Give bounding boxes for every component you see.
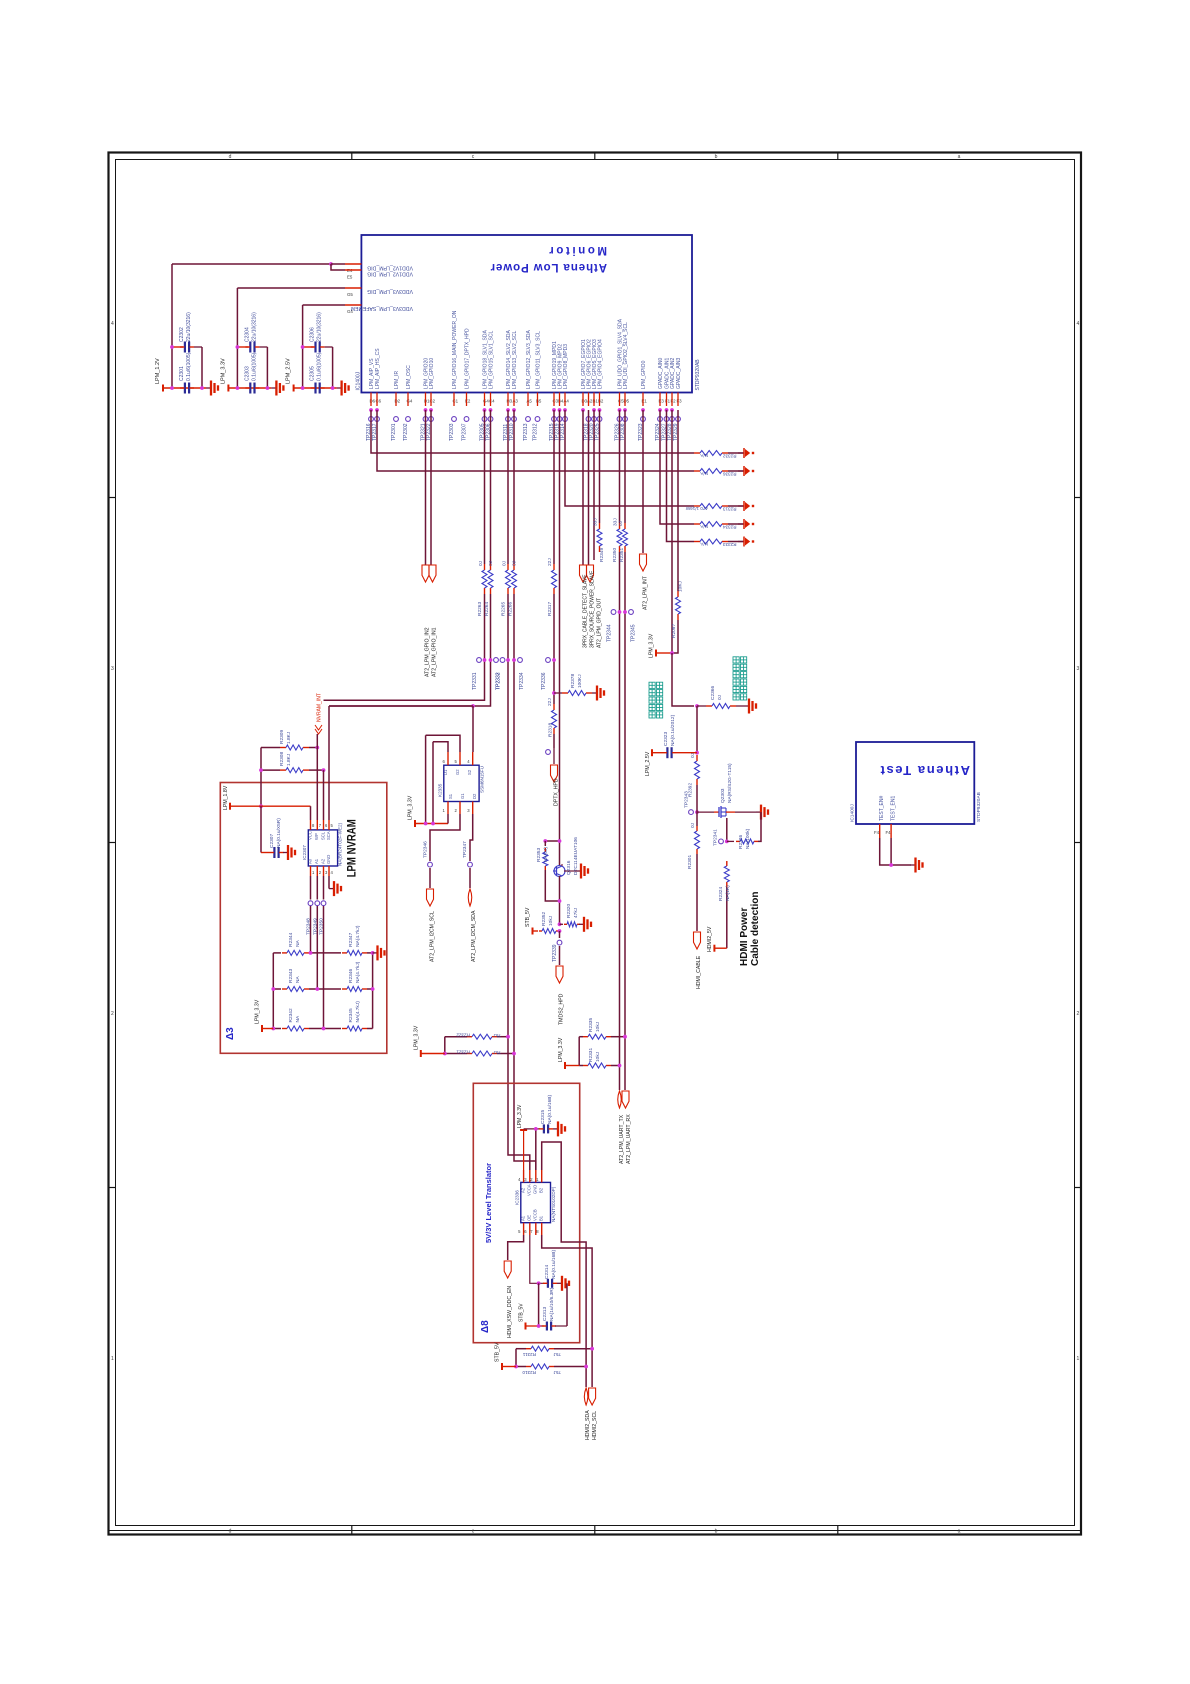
svg-text:1.8KJ: 1.8KJ xyxy=(286,753,292,766)
svg-text:b: b xyxy=(715,1529,718,1535)
svg-text:LPM_2.5V: LPM_2.5V xyxy=(645,751,651,776)
svg-text:NA(1K): NA(1K) xyxy=(725,885,731,901)
svg-text:TMDS2_HPD: TMDS2_HPD xyxy=(559,993,565,1025)
svg-text:LPM_GPIO11_SLV3_SCL: LPM_GPIO11_SLV3_SCL xyxy=(536,331,542,389)
svg-text:NA(RS/S2G-T115): NA(RS/S2G-T115) xyxy=(727,763,733,803)
svg-text:VCC: VCC xyxy=(308,831,313,840)
svg-text:LPM_GPIO13_SLV2_SCL: LPM_GPIO13_SLV2_SCL xyxy=(512,331,518,389)
svg-text:B1: B1 xyxy=(539,1215,544,1221)
svg-text:NA(0.1u/2012): NA(0.1u/2012) xyxy=(670,714,676,746)
svg-text:22J: 22J xyxy=(547,698,553,706)
svg-text:LPM NVRAM: LPM NVRAM xyxy=(345,819,359,877)
svg-text:AT2_LPM_GPIO_IN1: AT2_LPM_GPIO_IN1 xyxy=(432,627,438,677)
svg-text:LPM_GPIO15_SLV1_SCL: LPM_GPIO15_SLV1_SCL xyxy=(489,331,495,389)
svg-text:GND: GND xyxy=(533,1185,538,1194)
svg-text:R2345: R2345 xyxy=(348,1008,354,1022)
svg-text:R2334: R2334 xyxy=(723,524,737,529)
svg-text:C2304: C2304 xyxy=(244,327,250,342)
svg-text:GPADC_AIN0: GPADC_AIN0 xyxy=(658,357,664,389)
svg-text:NA(4.7kJ): NA(4.7kJ) xyxy=(355,1001,361,1023)
svg-text:0.1u/6(1005): 0.1u/6(1005) xyxy=(317,352,323,381)
svg-text:IC2336: IC2336 xyxy=(515,1190,520,1205)
svg-text:NA(0J): NA(0J) xyxy=(543,847,549,862)
svg-text:R2342: R2342 xyxy=(288,1008,294,1022)
svg-text:0J: 0J xyxy=(717,694,723,700)
svg-text:F4: F4 xyxy=(874,830,880,835)
svg-text:5V/3V Level Translator: 5V/3V Level Translator xyxy=(484,1163,493,1243)
svg-text:R2320: R2320 xyxy=(566,904,572,918)
svg-text:C2307: C2307 xyxy=(269,834,275,848)
svg-text:AT2_LPM_I2CM_SDA: AT2_LPM_I2CM_SDA xyxy=(471,910,477,962)
svg-text:2: 2 xyxy=(1077,1011,1080,1017)
svg-text:R2326: R2326 xyxy=(738,835,744,849)
svg-text:DPTX_HPD: DPTX_HPD xyxy=(554,778,560,806)
svg-text:NA(NTS0102DP): NA(NTS0102DP) xyxy=(551,1186,556,1222)
svg-text:LPM_3.3V: LPM_3.3V xyxy=(649,633,655,658)
svg-text:75J: 75J xyxy=(494,1033,501,1038)
svg-text:R2264: R2264 xyxy=(484,602,490,616)
svg-text:C2314: C2314 xyxy=(544,1265,550,1279)
svg-text:A0: A0 xyxy=(308,858,313,864)
svg-text:AT2_LPM_INT: AT2_LPM_INT xyxy=(643,575,649,610)
svg-text:TP2312: TP2312 xyxy=(533,423,539,441)
svg-text:Athena Low Power: Athena Low Power xyxy=(490,261,607,273)
svg-text:LPM_3.3V: LPM_3.3V xyxy=(558,1037,564,1062)
svg-text:LPM_2.5V: LPM_2.5V xyxy=(286,358,292,384)
svg-text:N/A: N/A xyxy=(699,453,708,458)
svg-text:1: 1 xyxy=(111,1356,114,1362)
svg-text:R2333: R2333 xyxy=(723,542,737,547)
svg-text:22u/10(3216): 22u/10(3216) xyxy=(251,312,257,342)
svg-text:TEST_EN1: TEST_EN1 xyxy=(891,795,897,821)
svg-text:Monitor: Monitor xyxy=(547,244,607,256)
svg-text:C2301: C2301 xyxy=(179,366,185,381)
svg-text:STDP9320AB: STDP9320AB xyxy=(976,792,982,822)
svg-text:VCCB: VCCB xyxy=(533,1209,538,1221)
svg-text:C2366: C2366 xyxy=(710,686,716,700)
svg-text:LPM_3.3V: LPM_3.3V xyxy=(255,999,261,1024)
svg-text:NA(4.7kJ): NA(4.7kJ) xyxy=(355,925,361,947)
svg-text:Cable detection: Cable detection xyxy=(750,892,761,966)
svg-text:R2347: R2347 xyxy=(348,932,354,946)
svg-text:LPM_1.8V: LPM_1.8V xyxy=(223,785,229,810)
svg-text:LPM_IR: LPM_IR xyxy=(394,371,400,389)
svg-text:TP2334: TP2334 xyxy=(519,672,525,690)
svg-text:470 1/16W: 470 1/16W xyxy=(685,506,708,511)
svg-text:VDD3V3_LPM_SAFEMEM: VDD3V3_LPM_SAFEMEM xyxy=(351,305,413,311)
svg-text:C2315: C2315 xyxy=(540,1110,546,1124)
svg-text:TP2333: TP2333 xyxy=(496,672,502,690)
svg-text:E5: E5 xyxy=(347,275,353,280)
svg-text:TP2336: TP2336 xyxy=(541,672,547,690)
svg-text:NA: NA xyxy=(295,939,301,946)
svg-text:a: a xyxy=(958,1529,961,1535)
svg-text:0J: 0J xyxy=(690,822,696,828)
svg-text:LPM_GPIO8_MPD3: LPM_GPIO8_MPD3 xyxy=(563,344,569,389)
svg-text:NA(100k): NA(100k) xyxy=(745,828,751,849)
svg-text:LPM_GPIO10: LPM_GPIO10 xyxy=(429,358,435,389)
svg-text:K2335: K2335 xyxy=(438,783,443,797)
svg-text:R2350: R2350 xyxy=(612,548,618,562)
svg-text:STB_5V: STB_5V xyxy=(519,1303,525,1322)
svg-text:10kJ: 10kJ xyxy=(595,1051,601,1062)
svg-text:R2322: R2322 xyxy=(456,1033,470,1038)
svg-text:Athena Test: Athena Test xyxy=(879,763,970,778)
svg-text:N/A: N/A xyxy=(699,542,708,547)
svg-text:a: a xyxy=(958,154,961,160)
svg-text:R2265: R2265 xyxy=(501,602,507,616)
svg-text:TP2344: TP2344 xyxy=(607,624,613,642)
svg-text:GND: GND xyxy=(326,855,331,864)
svg-text:100KJ: 100KJ xyxy=(577,674,583,688)
svg-text:A2: A2 xyxy=(521,1187,526,1193)
svg-text:C2306: C2306 xyxy=(310,327,316,342)
svg-text:S2: S2 xyxy=(467,769,472,775)
svg-text:LPM_GPIO16_MAIN_POWER_ON: LPM_GPIO16_MAIN_POWER_ON xyxy=(452,310,458,389)
svg-text:IC1400J: IC1400J xyxy=(850,804,856,822)
svg-text:b: b xyxy=(715,154,718,160)
svg-text:OE: OE xyxy=(527,1215,532,1221)
svg-text:GPADC_AIN3: GPADC_AIN3 xyxy=(676,357,682,389)
svg-text:75J: 75J xyxy=(554,1352,561,1357)
svg-text:HDMI2_SCL: HDMI2_SCL xyxy=(592,1411,598,1440)
svg-text:HDMI Power: HDMI Power xyxy=(739,908,750,966)
svg-text:LPM_OSC: LPM_OSC xyxy=(406,365,412,389)
svg-text:SSM6N15FU: SSM6N15FU xyxy=(480,766,485,793)
svg-text:LPM_AIP_HS_CS: LPM_AIP_HS_CS xyxy=(375,348,381,389)
svg-text:10KJ: 10KJ xyxy=(678,580,684,592)
svg-text:SCA: SCA xyxy=(326,831,331,840)
svg-text:R2308: R2308 xyxy=(279,752,285,766)
svg-text:TP2302: TP2302 xyxy=(403,423,409,441)
svg-text:0J: 0J xyxy=(478,560,484,566)
svg-text:R2331: R2331 xyxy=(588,1048,594,1062)
svg-text:AT2_LPM_GPID_OUT: AT2_LPM_GPID_OUT xyxy=(597,598,603,648)
svg-text:TP2345: TP2345 xyxy=(631,624,637,642)
svg-text:C2303: C2303 xyxy=(244,366,250,381)
svg-text:TP2303: TP2303 xyxy=(449,423,455,441)
svg-text:DTC114EUAT106: DTC114EUAT106 xyxy=(573,837,579,875)
svg-text:0J: 0J xyxy=(488,560,494,566)
svg-text:3PRX_CABLE_DETECT_SLAVE: 3PRX_CABLE_DETECT_SLAVE xyxy=(583,574,589,648)
svg-text:47kJ: 47kJ xyxy=(573,907,579,918)
svg-text:G1: G1 xyxy=(460,793,465,799)
svg-text:C2302: C2302 xyxy=(179,327,185,342)
svg-text:R2311: R2311 xyxy=(522,1352,536,1357)
svg-text:S1: S1 xyxy=(448,793,453,799)
svg-text:A1: A1 xyxy=(314,858,319,864)
svg-text:D1: D1 xyxy=(443,769,448,775)
svg-text:Q2316: Q2316 xyxy=(566,860,572,875)
svg-text:LPM_1.2V: LPM_1.2V xyxy=(155,358,161,384)
svg-text:NA: NA xyxy=(295,1015,301,1022)
svg-text:G5: G5 xyxy=(347,292,353,297)
svg-text:1.8KJ: 1.8KJ xyxy=(286,731,292,744)
svg-text:LPM_3.3V: LPM_3.3V xyxy=(408,795,414,820)
svg-text:Δ8: Δ8 xyxy=(480,1320,491,1333)
svg-text:A1: A1 xyxy=(521,1215,526,1221)
svg-text:0.1u/6(1005): 0.1u/6(1005) xyxy=(251,352,257,381)
svg-text:2: 2 xyxy=(111,1011,114,1017)
svg-text:AT2_LPM_GPIO_IN2: AT2_LPM_GPIO_IN2 xyxy=(425,627,431,677)
svg-text:VDD3V3_LPM_DIG: VDD3V3_LPM_DIG xyxy=(367,288,413,294)
svg-text:NA(BR24T02F-WE2): NA(BR24T02F-WE2) xyxy=(338,822,343,866)
svg-text:LPM_UDI_GPIO2_SLV4_SCL: LPM_UDI_GPIO2_SLV4_SCL xyxy=(623,322,629,389)
svg-text:R2346: R2346 xyxy=(348,969,354,983)
svg-text:TP2339: TP2339 xyxy=(552,944,558,962)
svg-text:3: 3 xyxy=(1077,666,1080,672)
svg-text:R2351: R2351 xyxy=(619,548,625,562)
svg-text:0J: 0J xyxy=(502,560,508,566)
svg-text:R2097: R2097 xyxy=(671,624,677,638)
svg-text:NA(4.7kJ): NA(4.7kJ) xyxy=(355,961,361,983)
svg-text:A2: A2 xyxy=(321,858,326,864)
svg-text:33J: 33J xyxy=(593,518,599,526)
svg-text:R2324: R2324 xyxy=(718,887,724,901)
svg-text:HDMI2_5V: HDMI2_5V xyxy=(707,926,713,952)
svg-text:C2313: C2313 xyxy=(542,1307,548,1321)
svg-text:4: 4 xyxy=(111,321,114,327)
svg-text:LPM_GPIO17_DPTX_HPD: LPM_GPIO17_DPTX_HPD xyxy=(465,328,471,389)
svg-text:R2343: R2343 xyxy=(288,969,294,983)
svg-text:LPM_GPIO0: LPM_GPIO0 xyxy=(641,360,647,389)
svg-text:STDP9320AB: STDP9320AB xyxy=(695,359,701,391)
svg-text:R2349: R2349 xyxy=(599,548,605,562)
svg-text:0J: 0J xyxy=(690,752,696,758)
svg-text:3: 3 xyxy=(111,666,114,672)
svg-text:C2305: C2305 xyxy=(310,366,316,381)
svg-text:10kJ: 10kJ xyxy=(548,915,554,926)
svg-text:STB_5V: STB_5V xyxy=(525,907,531,927)
svg-text:TEST_EN#: TEST_EN# xyxy=(879,795,885,821)
svg-text:LPM_GPIO12_SLV3_SDA: LPM_GPIO12_SLV3_SDA xyxy=(526,330,532,389)
svg-text:HDMI2_SDA: HDMI2_SDA xyxy=(585,1410,591,1440)
svg-text:C2323: C2323 xyxy=(663,732,669,746)
svg-text:NA(1u/10/6.3R): NA(1u/10/6.3R) xyxy=(549,1287,555,1321)
svg-text:TP2341: TP2341 xyxy=(713,829,719,846)
svg-text:R2317: R2317 xyxy=(547,602,553,616)
svg-text:VDD1V2_LPM_DIG: VDD1V2_LPM_DIG xyxy=(367,265,413,271)
svg-text:TP2313: TP2313 xyxy=(523,423,529,441)
svg-text:AT2_LPM_UART_RX: AT2_LPM_UART_RX xyxy=(626,1114,632,1164)
svg-text:B2: B2 xyxy=(539,1187,544,1193)
svg-text:NA(0.1u/16B): NA(0.1u/16B) xyxy=(551,1250,557,1279)
svg-text:R2310: R2310 xyxy=(522,1370,536,1375)
svg-text:R2378: R2378 xyxy=(570,674,576,688)
svg-text:N/A: N/A xyxy=(699,471,708,476)
svg-text:d: d xyxy=(229,154,232,160)
svg-text:75J: 75J xyxy=(494,1050,501,1055)
svg-text:NA(0.1u/16B): NA(0.1u/16B) xyxy=(547,1095,553,1124)
svg-text:0.1u/6(1005): 0.1u/6(1005) xyxy=(186,352,192,381)
svg-text:HDMI_XSW_DDC_EN: HDMI_XSW_DDC_EN xyxy=(507,1286,513,1338)
svg-text:R2321: R2321 xyxy=(456,1049,470,1054)
svg-text:LPM_3.3V: LPM_3.3V xyxy=(517,1104,523,1128)
svg-text:R2263: R2263 xyxy=(477,602,483,616)
svg-text:HDMI_CABLE: HDMI_CABLE xyxy=(696,955,702,989)
svg-text:TP2346: TP2346 xyxy=(423,841,429,858)
svg-text:AT2_LPM_I2CM_SCL: AT2_LPM_I2CM_SCL xyxy=(430,911,436,962)
svg-text:R2309: R2309 xyxy=(279,730,285,744)
svg-text:R2344: R2344 xyxy=(288,932,294,946)
svg-text:WP: WP xyxy=(314,833,319,840)
svg-text:SCL: SCL xyxy=(321,831,326,840)
svg-text:NVRAM_INT: NVRAM_INT xyxy=(317,693,323,722)
svg-text:R2266: R2266 xyxy=(508,602,514,616)
svg-text:Δ3: Δ3 xyxy=(225,1027,236,1040)
svg-text:R2352: R2352 xyxy=(541,912,547,926)
svg-text:TP2331: TP2331 xyxy=(472,672,478,690)
svg-text:AT2_LPM_UART_TX: AT2_LPM_UART_TX xyxy=(619,1114,625,1164)
svg-text:TP2301: TP2301 xyxy=(391,423,397,441)
svg-text:Q2303: Q2303 xyxy=(720,788,726,803)
svg-text:4: 4 xyxy=(1077,321,1080,327)
svg-text:TP2347: TP2347 xyxy=(462,841,468,858)
svg-text:LPM_GPIO4_EGPIO4: LPM_GPIO4_EGPIO4 xyxy=(598,339,604,389)
svg-text:1: 1 xyxy=(1077,1356,1080,1362)
svg-text:NA(0.1u/X5R): NA(0.1u/X5R) xyxy=(276,818,282,848)
svg-text:IC2307: IC2307 xyxy=(302,845,307,860)
svg-text:F4: F4 xyxy=(886,830,892,835)
svg-text:STB_5V: STB_5V xyxy=(495,1342,501,1362)
svg-text:d: d xyxy=(229,1529,232,1535)
svg-text:22u/10(3216): 22u/10(3216) xyxy=(186,312,192,342)
svg-text:3PRX_SOURCE_POWER_SLAVE: 3PRX_SOURCE_POWER_SLAVE xyxy=(590,570,596,648)
svg-text:VCCA: VCCA xyxy=(527,1184,532,1196)
svg-text:TP2307: TP2307 xyxy=(462,423,468,441)
svg-text:N/A: N/A xyxy=(699,524,708,529)
svg-text:IC1400J: IC1400J xyxy=(356,371,362,390)
svg-text:NA: NA xyxy=(295,976,301,983)
svg-text:10kJ: 10kJ xyxy=(595,1021,601,1032)
svg-text:G4: G4 xyxy=(347,309,353,314)
svg-text:33J: 33J xyxy=(613,518,619,526)
svg-text:0J: 0J xyxy=(618,520,624,526)
svg-text:0J: 0J xyxy=(512,560,518,566)
svg-text:22J: 22J xyxy=(547,558,553,566)
svg-text:LPM_3.3V: LPM_3.3V xyxy=(414,1025,420,1050)
svg-text:G2: G2 xyxy=(455,769,460,775)
svg-text:R2335: R2335 xyxy=(588,1018,594,1032)
svg-text:R2313: R2313 xyxy=(723,506,737,511)
svg-text:R2301: R2301 xyxy=(687,855,693,869)
svg-text:R2332: R2332 xyxy=(723,453,737,458)
svg-text:22u/10(3216): 22u/10(3216) xyxy=(317,312,323,342)
svg-text:R2336: R2336 xyxy=(723,471,737,476)
svg-text:VDD1V2_LPM_DIG: VDD1V2_LPM_DIG xyxy=(367,271,413,277)
svg-text:75J: 75J xyxy=(554,1370,561,1375)
svg-text:R2353: R2353 xyxy=(536,848,542,862)
svg-text:TP2343: TP2343 xyxy=(684,791,690,808)
svg-text:D2: D2 xyxy=(472,793,477,799)
svg-text:LPM_3.3V: LPM_3.3V xyxy=(220,358,226,384)
svg-text:R2318: R2318 xyxy=(548,723,554,737)
